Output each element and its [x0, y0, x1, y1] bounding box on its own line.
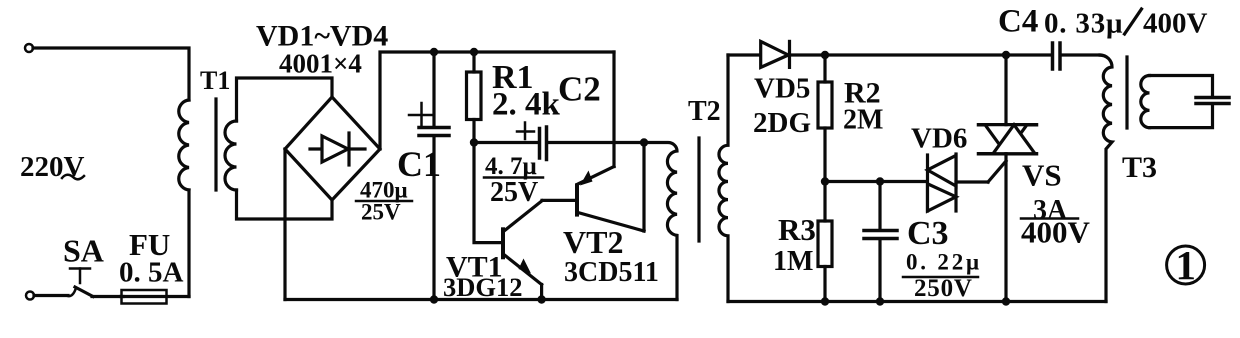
bottom rail right section: [728, 300, 1106, 303]
T1 core: [214, 99, 217, 190]
triac VS: [979, 123, 1037, 127]
wire VT2 collector up to node: [642, 143, 645, 232]
node R1/C2/base: [470, 138, 478, 146]
svg-text:SA: SA: [63, 233, 104, 269]
wire T1 sec bottom to bridge: [237, 190, 333, 219]
wire top input: [33, 48, 189, 100]
bridge rectifier VD1-VD4 diamond: [285, 97, 380, 200]
svg-text:25V: 25V: [490, 177, 538, 208]
terminal top-left: [25, 44, 33, 52]
node C3 bottom: [876, 297, 884, 305]
bottom rail left section: [285, 298, 677, 301]
wire to switch: [34, 294, 68, 297]
wire T1 sec top to bridge: [237, 78, 333, 121]
capacitor C4: [1051, 43, 1055, 69]
wire node row to diac: [825, 180, 926, 183]
transformer T1 secondary: [225, 121, 237, 190]
VS gate: [988, 161, 1006, 182]
svg-text:2DG: 2DG: [753, 107, 811, 139]
diac VD6: [926, 155, 929, 211]
svg-text:VD5: VD5: [754, 73, 810, 105]
wire fuse to T1: [187, 190, 190, 297]
resistor R3: [823, 182, 826, 222]
diode VD5: [761, 41, 789, 67]
svg-text:C3: C3: [907, 215, 949, 252]
wire switch to fuse: [92, 295, 123, 298]
svg-text:4. 7μ: 4. 7μ: [485, 153, 537, 180]
node R1 top: [470, 48, 478, 56]
transistor VT2: [575, 185, 579, 214]
svg-text:400V: 400V: [1143, 8, 1208, 40]
node C1 bottom: [430, 295, 438, 303]
AC tilde under V: [62, 175, 84, 180]
node C2/T2/collector: [640, 138, 648, 146]
svg-text:VT2: VT2: [563, 224, 623, 260]
node VD5/R2: [821, 51, 829, 59]
node VS bottom: [1002, 297, 1010, 305]
resistor R2: [823, 55, 826, 82]
circled 1: [1167, 246, 1205, 284]
svg-text:VD6: VD6: [911, 123, 967, 155]
svg-text:400V: 400V: [1021, 215, 1091, 250]
svg-text:2. 4k: 2. 4k: [492, 87, 561, 123]
svg-text:T2: T2: [688, 96, 721, 127]
svg-text:3CD511: 3CD511: [564, 257, 659, 288]
wire bridge minus down: [283, 149, 286, 300]
svg-text:C4: C4: [998, 4, 1038, 40]
svg-text:2M: 2M: [843, 105, 883, 136]
bridge diode: [310, 147, 365, 150]
node VT1 emitter on rail: [537, 295, 545, 303]
top rail right section: [728, 53, 1051, 56]
wire bridge plus to top rail: [380, 52, 614, 149]
capacitor C1: [432, 52, 435, 126]
svg-text:0. 22μ: 0. 22μ: [906, 250, 982, 275]
T3 core: [1125, 57, 1128, 128]
svg-text:3DG12: 3DG12: [443, 272, 523, 302]
svg-text:T1: T1: [200, 66, 230, 95]
svg-text:R3: R3: [778, 212, 816, 247]
resistor R1: [472, 52, 475, 72]
node R3 bottom: [821, 297, 829, 305]
svg-text:C2: C2: [558, 70, 601, 109]
svg-text:VS: VS: [1022, 158, 1062, 193]
node C3 top: [876, 177, 884, 185]
C2 polarity plus: [517, 130, 534, 133]
wire VT2 emitter to top rail: [612, 52, 615, 167]
transformer T2 primary: [644, 143, 677, 300]
svg-text:4001×4: 4001×4: [279, 49, 362, 79]
svg-text:1: 1: [1176, 242, 1197, 288]
transformer T3 secondary + tank: [1141, 76, 1150, 128]
transformer T1 primary: [179, 100, 189, 190]
svg-text:250V: 250V: [914, 275, 973, 302]
transformer T2 secondary: [719, 55, 728, 302]
svg-text:0. 5A: 0. 5A: [119, 257, 184, 289]
transformer T3 primary: [1100, 55, 1112, 302]
terminal bottom-left: [26, 292, 34, 300]
node R2/R3: [821, 177, 829, 185]
wire node down to VT1 base: [474, 143, 502, 243]
svg-text:25V: 25V: [361, 200, 401, 225]
node C1 top: [430, 48, 438, 56]
T2 core: [697, 138, 700, 241]
capacitor C3: [878, 182, 881, 230]
switch SA: [68, 288, 76, 296]
svg-text:T3: T3: [1122, 151, 1157, 184]
node VS top: [1002, 51, 1010, 59]
transistor VT1: [501, 229, 505, 257]
capacitor C2: [474, 141, 538, 144]
svg-text:1M: 1M: [773, 246, 813, 277]
fuse FU: [121, 295, 189, 298]
svg-text:0. 33μ: 0. 33μ: [1044, 8, 1123, 40]
C1 polarity plus: [409, 114, 433, 117]
